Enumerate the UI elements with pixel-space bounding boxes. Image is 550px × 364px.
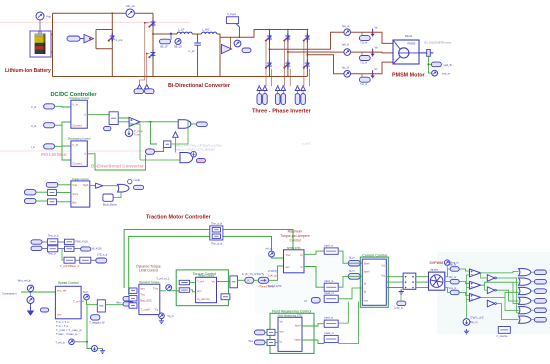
- svg-text:711_m: 711_m: [360, 41, 367, 44]
- wire cmd: [21, 291, 55, 293]
- input port Ib: [44, 144, 55, 149]
- svg-text:Iqref: Iqref: [364, 269, 370, 273]
- svg-text:Tlim: Tlim: [153, 286, 159, 290]
- snubber Rb: [361, 52, 363, 55]
- battery B1 box: [30, 31, 51, 57]
- gate signal source G2: [145, 85, 150, 89]
- cap lim: [104, 126, 111, 130]
- block Current Control inner: [362, 259, 386, 305]
- svg-text:Vq: Vq: [381, 273, 385, 277]
- gate signal source G1: [137, 85, 142, 89]
- phase wire to motor a: [351, 32, 394, 43]
- svg-text:Buck_Boost: Buck_Boost: [103, 202, 117, 206]
- voltage probe Va: [371, 29, 374, 36]
- gate source GS4: [281, 86, 286, 91]
- node midpoint: [152, 33, 154, 35]
- wires current out: [386, 276, 403, 278]
- cluster scale row1: [31, 240, 42, 244]
- input rect T2: [48, 190, 57, 196]
- svg-text:CT2_in: CT2_in: [395, 306, 404, 310]
- fw out rect2: [324, 335, 338, 342]
- svg-text:Discharging Control: Discharging Control: [68, 137, 91, 141]
- svg-text:711_m: 711_m: [360, 61, 367, 64]
- input rect T3: [48, 199, 57, 205]
- svg-text:Idref_m: Idref_m: [325, 279, 334, 283]
- gate source GS5: [295, 86, 300, 91]
- svg-text:Wm_ref_in: Wm_ref_in: [18, 278, 32, 282]
- fw wires out: [302, 324, 324, 326]
- svg-text:SB_LF: SB_LF: [160, 45, 168, 48]
- wire converter mid rail: [153, 33, 177, 35]
- svg-text:SVPWM: SVPWM: [429, 261, 443, 265]
- svg-text:Lithium-Ion Battery: Lithium-Ion Battery: [5, 68, 51, 74]
- svg-text:T_ref: T_ref: [73, 300, 80, 304]
- node top-rail junction: [111, 12, 113, 14]
- wire dc bus left loop: [52, 13, 54, 76]
- or gate D6: [519, 316, 531, 323]
- not gate NC: [487, 300, 494, 307]
- output cap O4: [534, 299, 546, 304]
- output cap PWM2: [196, 158, 205, 162]
- current sensor Isc: [344, 71, 351, 78]
- svg-text:5w_in: 5w_in: [470, 320, 478, 324]
- svg-text:(P) 1A100UBTRmotor: (P) 1A100UBTRmotor: [424, 41, 451, 45]
- wire torque in: [190, 282, 196, 284]
- svg-text:Iqsat_m: Iqsat_m: [325, 331, 334, 335]
- svg-text:K: K: [248, 279, 250, 283]
- triangle wave source: [463, 319, 470, 326]
- svg-text:Charging Control: Charging Control: [69, 96, 89, 100]
- svg-text:a*1G/Ty: a*1G/Ty: [268, 269, 278, 273]
- limiter block L2: [164, 141, 171, 148]
- svg-text:Idref: Idref: [364, 261, 370, 265]
- cap CT2_in: [397, 301, 406, 306]
- wire buf to or: [103, 185, 118, 187]
- current sensor Isb: [344, 49, 351, 56]
- inverter gate wires: [265, 42, 267, 86]
- phase wire to motor b: [351, 51, 394, 54]
- input cap Iq_m: [348, 274, 360, 280]
- wire buckboost: [113, 192, 121, 198]
- svg-text:mot_w: mot_w: [442, 71, 451, 75]
- wire speed out: [81, 300, 84, 302]
- mech load ML1: [427, 50, 431, 57]
- svg-text:T_takgain_W: T_takgain_W: [89, 321, 105, 325]
- wire tref bottom: [74, 342, 91, 349]
- svg-text:Tmax - Tmax_w: Tmax - Tmax_w: [56, 332, 78, 336]
- svg-text:SB_LD: SB_LD: [174, 45, 182, 48]
- svg-text:Tlim_a_in: Tlim_a_in: [211, 222, 223, 226]
- wire to mtpa: [269, 266, 284, 280]
- wire dcdc in2: [55, 122, 71, 125]
- wires current in: [338, 251, 362, 263]
- block C_source: [498, 327, 510, 334]
- svpwm out caps: [450, 267, 459, 272]
- source P_Loop: [125, 129, 133, 137]
- battery terminal stubs: [51, 34, 53, 36]
- svg-text:V_hi: V_hi: [72, 143, 78, 147]
- or gate D3: [519, 287, 531, 294]
- svg-text:Toggle Control: Toggle Control: [72, 177, 89, 181]
- svg-text:Iqsat: Iqsat: [294, 338, 300, 342]
- cluster scale row3: [64, 257, 75, 263]
- and gate U4: [180, 153, 193, 163]
- svg-text:I_b: I_b: [31, 145, 35, 149]
- svg-text:Control: Control: [290, 238, 301, 242]
- svg-text:Timed w/Tb: Timed w/Tb: [268, 284, 282, 288]
- svg-text:Tlim_a_in: Tlim_a_in: [211, 241, 223, 245]
- green loop outer: [124, 230, 293, 289]
- source circ bottom: [92, 346, 98, 352]
- svg-text:Isa_A: Isa_A: [342, 24, 349, 28]
- wire torque out: [217, 281, 230, 283]
- fw wires in: [265, 331, 267, 333]
- igbt Q3H: [304, 33, 310, 42]
- wire dyn out: [160, 290, 166, 292]
- inductor L_LF: [177, 32, 192, 34]
- svg-text:Time: Time: [134, 132, 140, 136]
- voltage sensor VDC: [36, 12, 44, 20]
- wires xfm to caps: [445, 269, 450, 277]
- wire boost leg: [152, 13, 154, 76]
- output cap O5: [534, 308, 546, 313]
- voltage probe Vb: [371, 49, 374, 56]
- svg-text:PM LM Mon: PM LM Mon: [41, 152, 67, 157]
- caps to dyn block: [123, 297, 134, 301]
- svg-text:Bst: Bst: [72, 201, 76, 205]
- wire charge out: [87, 114, 109, 116]
- cluster scale row2: [31, 246, 42, 250]
- gate driver cluster: [222, 45, 232, 54]
- output cap O1: [534, 270, 546, 275]
- fw out rect1: [324, 320, 338, 327]
- snubber Rc: [361, 74, 363, 77]
- wire tri to comps: [466, 301, 468, 319]
- sensor command: [27, 285, 33, 291]
- fw input caps: [255, 330, 266, 335]
- svg-text:MTPA 3750: MTPA 3750: [287, 246, 301, 250]
- speed feedback wire: [427, 56, 429, 70]
- svg-text:PMSM Motor: PMSM Motor: [392, 73, 426, 79]
- torque inputs: [179, 280, 189, 285]
- block R: [311, 297, 320, 303]
- svg-text:711_m: 711_m: [360, 83, 367, 86]
- svg-text:wm: wm: [57, 313, 62, 317]
- gate source GS3: [275, 86, 280, 91]
- and gate U2: [178, 120, 191, 128]
- ground g1: [28, 304, 34, 316]
- gate source GS2: [263, 86, 268, 91]
- wire scale green: [62, 249, 64, 260]
- ghost pink rule 2: [0, 150, 165, 152]
- svg-text:spd_fb: spd_fb: [444, 63, 453, 67]
- wire battery sense: [39, 20, 41, 31]
- svg-text:Vb: Vb: [375, 46, 379, 50]
- wires lower gate: [171, 120, 188, 144]
- svg-text:wm: wm: [197, 289, 202, 293]
- wire toggle out: [90, 185, 96, 187]
- node circle dyn: [166, 285, 172, 291]
- ground g5: [464, 329, 469, 334]
- or gate D2: [519, 278, 531, 285]
- input port Vhi: [44, 104, 55, 109]
- switch S1: [109, 33, 115, 42]
- svg-text:V_lo: V_lo: [31, 124, 37, 128]
- green box Current Control: [360, 257, 388, 307]
- ground g3: [159, 319, 164, 324]
- limiter block L1: [109, 112, 118, 125]
- wire precharge branch: [111, 13, 113, 76]
- svg-text:Tg: Tg: [155, 307, 159, 311]
- dc bus capacitor wire: [219, 37, 221, 76]
- mosfet Q2 low: [149, 50, 155, 59]
- svg-text:L_LF: L_LF: [178, 28, 185, 32]
- fw input rects: [267, 329, 275, 335]
- node circle mtpa in: [269, 251, 275, 257]
- svg-text:wm: wm: [280, 330, 285, 334]
- sat vertical V1: [230, 276, 238, 288]
- or gate D5: [519, 307, 531, 314]
- input cap T1: [46, 182, 58, 187]
- svg-text:1/ (K_Th_a*1G/Ty: 1/ (K_Th_a*1G/Ty: [242, 272, 265, 276]
- svg-text:mode: mode: [134, 178, 141, 182]
- svg-text:Dynamic Torque: Dynamic Torque: [139, 280, 160, 284]
- svg-text:Isb_A: Isb_A: [342, 42, 349, 46]
- svg-text:Idc_Hi: Idc_Hi: [126, 4, 135, 8]
- rect Iqref_m: [324, 248, 338, 254]
- svg-text:Command in: Command in: [2, 292, 17, 296]
- current sensor Idc_Hi: [126, 9, 134, 17]
- svg-text:LTE_s_a: LTE_s_a: [97, 253, 108, 257]
- input port Vlo: [44, 123, 55, 128]
- svg-text:L_WC: L_WC: [202, 28, 210, 32]
- svg-text:Trq: Trq: [140, 292, 145, 296]
- svg-text:PMSM: PMSM: [408, 41, 416, 45]
- input cap T5: [24, 198, 36, 203]
- svg-text:Current: Current: [72, 162, 82, 166]
- svg-text:Bat_SOC: Bat_SOC: [140, 298, 152, 302]
- sensor Vreg: [445, 260, 450, 265]
- igbt Q1H: [266, 33, 272, 42]
- svg-text:ref_a: ref_a: [266, 247, 272, 251]
- svg-text:Maximum: Maximum: [288, 230, 303, 234]
- gate source GS1: [257, 86, 262, 91]
- or gate D1: [519, 269, 531, 276]
- comparator CMP1: [129, 117, 140, 126]
- svg-text:T_coeff: T_coeff: [140, 307, 149, 311]
- wires caps to comparators: [459, 269, 469, 271]
- svg-text:Vd: Vd: [381, 263, 385, 267]
- svg-text:n_w*2: n_w*2: [302, 142, 311, 146]
- comparator mesh wires: [481, 272, 513, 274]
- voltage probe Vc: [371, 70, 374, 77]
- svg-text:Vca_in: Vca_in: [449, 287, 457, 290]
- svg-text:Speed Control: Speed Control: [58, 281, 79, 285]
- svg-text:FBX_4126: FBX_4126: [76, 240, 89, 244]
- svg-text:Iq_m: Iq_m: [349, 269, 355, 273]
- svg-text:V_hi: V_hi: [31, 105, 37, 109]
- xor node: [191, 151, 197, 157]
- svg-text:dq-abc: dq-abc: [430, 268, 439, 272]
- output cap O2: [534, 279, 546, 284]
- svg-text:Tg_in: Tg_in: [167, 314, 174, 318]
- cap arrow: [258, 277, 269, 283]
- rate limiter RL1: [27, 297, 34, 304]
- svg-text:Vrc1: Vrc1: [72, 192, 78, 196]
- svg-text:Vbc_in: Vbc_in: [449, 276, 457, 279]
- sensor SB_LF: [160, 39, 171, 44]
- svg-text:1/(K_a): 1/(K_a): [268, 273, 277, 277]
- svg-text:Idref: Idref: [295, 324, 301, 328]
- wire top rail: [53, 12, 127, 14]
- tint wash bottom right: [437, 252, 550, 334]
- svg-text:Id_m: Id_m: [349, 255, 355, 259]
- svg-text:Tref: Tref: [286, 253, 291, 257]
- svg-text:Idref_in: Idref_in: [325, 316, 334, 320]
- cap K gain: [245, 277, 254, 283]
- precharge inner loop: [96, 29, 112, 31]
- or gate U6: [118, 184, 130, 192]
- wire cmp to and: [140, 121, 178, 123]
- svg-text:P_w/2*RBase_w: P_w/2*RBase_w: [60, 264, 79, 268]
- speed sensor mot_w: [428, 70, 431, 73]
- ground g4: [399, 289, 404, 294]
- green vertical from sat: [86, 306, 88, 342]
- capacitor C_byp1: [226, 17, 238, 24]
- battery B1 cell: [38, 32, 42, 34]
- speed sensor spd_fb: [428, 63, 431, 65]
- wire dcdc in1: [55, 105, 71, 108]
- wire iqsat: [338, 288, 362, 299]
- buffer up U3: [173, 132, 179, 138]
- snubber Ra: [361, 32, 363, 35]
- phase wires: [270, 32, 345, 49]
- wire lower branch: [151, 122, 158, 144]
- svg-text:Isc_A: Isc_A: [342, 66, 349, 70]
- not gate NB: [487, 287, 494, 294]
- svg-text:Iqref_m: Iqref_m: [325, 243, 334, 247]
- gate wires bidirectional: [140, 23, 150, 85]
- svg-text:Three - Phase Inverter: Three - Phase Inverter: [252, 108, 312, 114]
- svg-text:Torque-per-Ampere: Torque-per-Ampere: [280, 234, 310, 238]
- wire to comparator: [118, 118, 129, 122]
- svg-text:V_hi: V_hi: [72, 103, 78, 107]
- svg-text:C_byp1: C_byp1: [227, 12, 236, 16]
- cap rl: [41, 308, 49, 312]
- svg-text:Limit Control: Limit Control: [139, 269, 158, 273]
- phase wire to motor c: [351, 62, 394, 74]
- svg-text:Vdc: Vdc: [46, 15, 52, 19]
- svg-text:wm: wm: [286, 265, 291, 269]
- inverter legs: [269, 30, 271, 77]
- input cap Id_m: [348, 260, 360, 266]
- buffer U5: [96, 183, 103, 188]
- wires dq to xfm: [416, 276, 429, 278]
- wire dcdc in3: [55, 145, 62, 147]
- svg-text:T_ref: T_ref: [197, 279, 204, 283]
- svg-text:Iq_sat Idq: Iq_sat Idq: [197, 297, 210, 301]
- relay driver K1: [67, 36, 80, 41]
- svg-text:Motor: Motor: [405, 34, 412, 38]
- svg-text:Tem_b: Tem_b: [48, 251, 56, 255]
- input rects dyn: [129, 288, 137, 293]
- inductor L_WC: [202, 32, 217, 34]
- block dq ports: [403, 273, 416, 289]
- svg-text:high: high: [83, 183, 89, 187]
- svg-text:Wm: Wm: [249, 339, 254, 343]
- svg-text:Vdc: Vdc: [72, 183, 77, 187]
- svg-text:Tem_b_b: Tem_b_b: [48, 234, 59, 238]
- output cap PWM1: [196, 122, 207, 126]
- wire sat out: [105, 304, 123, 306]
- svg-text:C_LV: C_LV: [189, 50, 195, 53]
- input cap T4: [24, 190, 36, 195]
- ghost pink rule: [0, 21, 190, 23]
- svg-text:wm_ref: wm_ref: [57, 289, 66, 293]
- svg-text:Current: Current: [72, 124, 82, 128]
- output cap O3: [534, 289, 546, 294]
- rect Idref fb: [324, 283, 338, 291]
- svg-text:W_4126: W_4126: [92, 246, 102, 250]
- svg-text:Iqsat_in: Iqsat_in: [325, 291, 335, 295]
- svg-text:Tref: Tref: [83, 290, 88, 294]
- motor shaft: [419, 52, 433, 54]
- cap takgain: [91, 315, 101, 320]
- output cap O6: [534, 317, 546, 322]
- saturation block SAT1: [97, 300, 105, 312]
- not gate NA: [487, 275, 494, 282]
- svg-text:S_pre: S_pre: [116, 38, 123, 42]
- comparator CC: [470, 294, 481, 302]
- current sensor Isa: [344, 29, 351, 36]
- svg-text:Bi-Directional Converter: Bi-Directional Converter: [168, 83, 231, 89]
- sensor Tref: [84, 294, 90, 300]
- torque small block: [221, 294, 230, 300]
- block Buck_Boost: [103, 194, 113, 201]
- igbt Q2H: [284, 33, 290, 42]
- wire bottom rail: [53, 76, 308, 78]
- wire and out: [191, 123, 197, 125]
- igbt Q2L: [284, 60, 290, 69]
- ground g2: [100, 349, 105, 354]
- wire mtpa out1: [304, 251, 324, 254]
- sensor T_ref_in: [69, 339, 75, 345]
- svg-text:wm: wm: [140, 286, 145, 290]
- or gate D4: [519, 297, 531, 304]
- mosfet Q1 high: [149, 19, 155, 28]
- svg-text:Bi-Directional Converter: Bi-Directional Converter: [91, 164, 144, 169]
- green box Torque Control: [176, 270, 228, 306]
- block Tlim feedthrough: [210, 226, 223, 240]
- svg-text:Vab_in: Vab_in: [449, 263, 457, 266]
- comparator CB: [470, 281, 481, 289]
- igbt Q1L: [266, 60, 272, 69]
- green box Field Weakening: [270, 313, 314, 353]
- svg-text:Wm: Wm: [116, 300, 121, 304]
- svg-text:dv/dt_u = 2*pi*f_LC*V_hi/2*pi*: dv/dt_u = 2*pi*f_LC*V_hi/2*pi*t: [174, 148, 215, 152]
- lower branch cap: [146, 149, 155, 154]
- mode sensor: [128, 179, 132, 183]
- igbt Q3L: [304, 60, 310, 69]
- green loop inner: [129, 236, 272, 295]
- wire mtpa out2: [304, 267, 324, 288]
- svg-text:T_ref_in: T_ref_in: [55, 340, 65, 344]
- sensor Tg_in: [159, 313, 165, 319]
- svg-text:T_ref_in_1: T_ref_in_1: [156, 276, 170, 280]
- svg-text:C_source: C_source: [497, 334, 509, 338]
- capacitor C_LV: [194, 34, 201, 77]
- comparator CA: [470, 269, 481, 277]
